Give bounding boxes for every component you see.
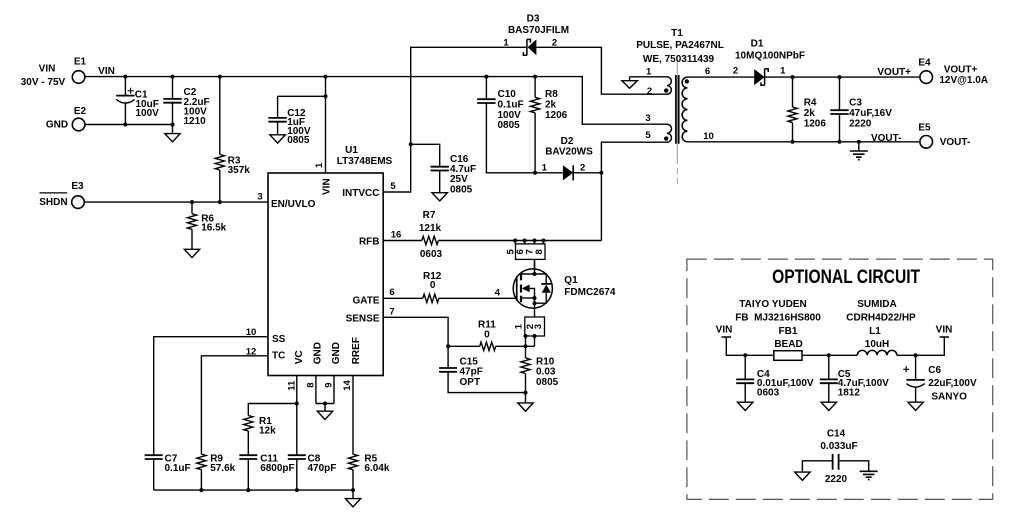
wire T1 pin 5 to Q1 drain rail xyxy=(601,142,667,240)
wire C12 leads xyxy=(277,96,279,135)
svg-text:TAIYO YUDEN: TAIYO YUDEN xyxy=(739,299,806,310)
svg-text:2: 2 xyxy=(647,86,652,97)
transformer T1 primary winding 3-5 xyxy=(667,124,672,142)
svg-text:VOUT+: VOUT+ xyxy=(877,67,911,78)
ground C16 xyxy=(432,193,447,201)
wire D3 cathode to T1 pin 2 xyxy=(536,47,667,94)
svg-text:C14: C14 xyxy=(827,428,846,439)
svg-text:RFB: RFB xyxy=(359,237,380,248)
wire output earth stem xyxy=(858,142,860,151)
wire C3 leads xyxy=(839,77,841,142)
IC U1 LT3748EMS body xyxy=(268,173,383,376)
svg-text:BAS70JFILM: BAS70JFILM xyxy=(508,25,569,36)
svg-text:2220: 2220 xyxy=(825,474,848,485)
wire SS to C7 xyxy=(154,337,268,490)
svg-text:0805: 0805 xyxy=(287,135,310,146)
svg-text:121k: 121k xyxy=(419,223,442,234)
svg-text:INTVCC: INTVCC xyxy=(342,188,379,199)
ground R6 xyxy=(184,249,199,257)
svg-text:C3: C3 xyxy=(849,98,862,109)
svg-text:VIN: VIN xyxy=(321,178,332,195)
svg-text:2: 2 xyxy=(733,66,738,77)
svg-text:1210: 1210 xyxy=(184,116,207,127)
svg-text:57.6k: 57.6k xyxy=(210,463,235,474)
svg-text:E2: E2 xyxy=(74,106,87,117)
svg-text:1206: 1206 xyxy=(804,119,827,130)
resistor R3 xyxy=(215,155,224,171)
svg-text:0: 0 xyxy=(430,280,436,291)
wire FB1 to L1 xyxy=(802,354,857,356)
wire VOUT- xyxy=(688,141,920,143)
capacitor C16 plates xyxy=(431,167,449,171)
svg-text:0805: 0805 xyxy=(498,120,521,131)
svg-text:EN/UVLO: EN/UVLO xyxy=(271,199,316,210)
svg-text:VOUT-: VOUT- xyxy=(871,133,902,144)
wire C2 leads xyxy=(172,77,174,134)
svg-text:357k: 357k xyxy=(228,165,251,176)
resistor R10 xyxy=(521,358,530,374)
svg-text:30V - 75V: 30V - 75V xyxy=(21,77,66,88)
svg-text:OPT: OPT xyxy=(460,377,481,388)
svg-text:2220: 2220 xyxy=(849,119,872,130)
svg-text:E5: E5 xyxy=(918,123,931,134)
wire C12 branch xyxy=(278,95,326,97)
earth ground C14 right xyxy=(860,471,878,479)
wire GND pins 8 9 xyxy=(316,376,334,412)
transistor Q1 FDMC2674 body xyxy=(513,269,552,308)
svg-text:0805: 0805 xyxy=(536,377,559,388)
svg-text:E1: E1 xyxy=(74,56,87,67)
svg-text:10: 10 xyxy=(246,327,257,338)
svg-text:VOUT+: VOUT+ xyxy=(944,65,978,76)
svg-text:WE, 750311439: WE, 750311439 xyxy=(643,54,715,65)
svg-text:U1: U1 xyxy=(345,145,358,156)
svg-text:GND: GND xyxy=(312,342,323,364)
wire GATE xyxy=(383,297,517,299)
wire VC node xyxy=(248,376,296,491)
svg-text:6: 6 xyxy=(705,66,710,77)
svg-text:470pF: 470pF xyxy=(308,463,337,474)
svg-text:2: 2 xyxy=(552,37,557,48)
transformer T1 center line xyxy=(676,59,678,158)
svg-text:10: 10 xyxy=(703,131,714,142)
svg-text:1812: 1812 xyxy=(838,387,861,398)
wire TC to R9 xyxy=(201,356,268,490)
ground U1 GND pins xyxy=(317,411,332,419)
transistor Q1 source pin box 1 2 3 xyxy=(525,317,545,336)
wire VIN rail to T1 pin 3 xyxy=(85,77,667,125)
svg-text:RREF: RREF xyxy=(351,337,362,364)
ground C4 xyxy=(738,402,753,410)
transformer T1 core xyxy=(676,75,679,144)
C6 polarity plus sign xyxy=(903,366,909,372)
transistor Q1 drain pin box xyxy=(516,244,546,260)
svg-text:LT3748EMS: LT3748EMS xyxy=(337,156,393,167)
earth ground VOUT- xyxy=(850,151,868,160)
svg-text:5: 5 xyxy=(390,181,396,192)
svg-text:OPTIONAL CIRCUIT: OPTIONAL CIRCUIT xyxy=(772,266,920,288)
resistor R1 xyxy=(244,416,253,432)
svg-text:Q1: Q1 xyxy=(564,275,578,286)
wire SHDN xyxy=(84,201,268,203)
capacitor C5 plates xyxy=(820,379,838,383)
wire optional VIN right stub xyxy=(897,337,949,355)
ground R5 xyxy=(345,499,360,507)
svg-text:12: 12 xyxy=(246,347,257,358)
resistor R11 xyxy=(480,342,496,350)
svg-text:1: 1 xyxy=(542,162,548,173)
svg-text:3: 3 xyxy=(533,324,544,329)
wire compensation ground rail xyxy=(154,490,353,499)
svg-text:1206: 1206 xyxy=(545,110,568,121)
capacitor C4 plates xyxy=(736,379,754,383)
terminal E1 xyxy=(72,71,85,84)
wire R6 leads xyxy=(191,202,193,249)
svg-text:10uH: 10uH xyxy=(865,339,889,350)
svg-text:BAV20WS: BAV20WS xyxy=(545,147,593,158)
capacitor C6 plates xyxy=(906,379,924,381)
wire U1 VIN pin 1 xyxy=(325,77,327,173)
svg-text:8: 8 xyxy=(305,383,316,388)
svg-text:SS: SS xyxy=(272,334,286,345)
svg-text:VIN: VIN xyxy=(936,324,953,335)
svg-text:3: 3 xyxy=(257,192,262,203)
capacitor C10 plates xyxy=(477,99,495,103)
svg-text:3: 3 xyxy=(645,113,650,124)
ground C5 xyxy=(821,402,836,410)
wire optional VIN left stub xyxy=(722,337,774,355)
svg-text:6.04k: 6.04k xyxy=(364,463,389,474)
resistor R6 xyxy=(187,214,196,230)
wire R11 node xyxy=(448,345,534,347)
svg-text:GND: GND xyxy=(331,342,342,364)
svg-text:VIN: VIN xyxy=(716,324,733,335)
svg-text:8: 8 xyxy=(534,249,545,254)
diode D1 10MQ100NPbF xyxy=(754,69,768,85)
svg-text:R7: R7 xyxy=(423,210,436,221)
capacitor C14 plates xyxy=(833,454,839,470)
svg-text:100V: 100V xyxy=(136,108,160,119)
svg-text:D1: D1 xyxy=(751,39,764,50)
resistor R4 xyxy=(788,107,797,123)
ground C12 xyxy=(270,135,285,143)
wire C5 leads xyxy=(828,355,830,402)
svg-text:7: 7 xyxy=(389,307,394,318)
ground C6 xyxy=(908,402,923,410)
terminal E5 xyxy=(920,136,933,149)
svg-text:PULSE, PA2467NL: PULSE, PA2467NL xyxy=(636,40,724,51)
SHDN overline xyxy=(40,192,68,194)
terminal E4 xyxy=(920,71,933,84)
svg-text:14: 14 xyxy=(342,380,353,391)
wire R10 leads xyxy=(525,346,527,403)
svg-text:0603: 0603 xyxy=(420,249,443,260)
svg-text:T1: T1 xyxy=(671,28,683,39)
wire C10 leads xyxy=(486,77,563,173)
svg-text:SUMIDA: SUMIDA xyxy=(857,299,896,310)
junction dots optional xyxy=(743,353,917,357)
svg-text:SHDN: SHDN xyxy=(39,197,67,208)
wire C15 top lead xyxy=(447,346,449,368)
resistor R9 xyxy=(197,454,206,470)
svg-text:1: 1 xyxy=(780,66,786,77)
svg-text:0.033uF: 0.033uF xyxy=(820,441,857,452)
wire GND input xyxy=(85,124,173,126)
wire RFB / drain rail xyxy=(383,240,601,242)
wire T1 pin 1 stub xyxy=(630,77,667,81)
svg-text:0805: 0805 xyxy=(450,184,473,195)
svg-text:FB MJ3216HS800: FB MJ3216HS800 xyxy=(735,312,821,323)
svg-text:SANYO: SANYO xyxy=(931,391,967,402)
capacitor C11 plates xyxy=(239,455,257,459)
transistor Q1 drain pin stubs 5 6 7 8 xyxy=(515,241,543,244)
svg-text:2: 2 xyxy=(580,162,585,173)
svg-text:FDMC2674: FDMC2674 xyxy=(564,287,616,298)
svg-text:C6: C6 xyxy=(928,365,941,376)
svg-text:BEAD: BEAD xyxy=(774,339,802,350)
diode D3 BAS70JFILM xyxy=(523,39,536,55)
svg-text:0603: 0603 xyxy=(757,387,780,398)
svg-text:L1: L1 xyxy=(869,326,881,337)
svg-text:GND: GND xyxy=(46,120,68,131)
transformer T1 secondary winding 6-10 xyxy=(682,77,687,142)
svg-text:0: 0 xyxy=(484,330,490,341)
svg-text:VIN: VIN xyxy=(39,64,56,75)
svg-text:1: 1 xyxy=(503,37,509,48)
svg-text:1: 1 xyxy=(646,66,652,77)
capacitor C1 plates xyxy=(116,95,134,97)
terminal E2 xyxy=(72,118,85,131)
wire C1 leads xyxy=(124,77,126,125)
wire T1 pin 6 to D1 xyxy=(688,76,755,78)
svg-text:D3: D3 xyxy=(527,14,540,25)
wire SENSE xyxy=(383,317,448,346)
svg-text:VC: VC xyxy=(294,350,305,364)
svg-text:VIN: VIN xyxy=(98,66,115,77)
svg-text:D2: D2 xyxy=(561,136,574,147)
svg-text:16.5k: 16.5k xyxy=(201,222,226,233)
svg-text:0.1uF: 0.1uF xyxy=(498,99,524,110)
svg-text:CDRH4D22/HP: CDRH4D22/HP xyxy=(846,312,916,323)
resistor R8 xyxy=(531,97,540,113)
wire C14 right to earth xyxy=(839,461,869,472)
ground C14 left arrow xyxy=(795,472,810,480)
svg-text:4: 4 xyxy=(495,287,501,298)
wire C6 leads xyxy=(915,355,917,402)
svg-text:GATE: GATE xyxy=(352,295,379,306)
capacitor C2 plates xyxy=(163,99,181,103)
svg-text:6800pF: 6800pF xyxy=(260,463,294,474)
svg-text:1: 1 xyxy=(314,162,325,168)
svg-text:10MQ100NPbF: 10MQ100NPbF xyxy=(735,51,805,62)
svg-text:R4: R4 xyxy=(804,98,817,109)
svg-text:9: 9 xyxy=(323,383,334,388)
capacitor C3 plates xyxy=(830,110,848,114)
svg-text:0.1uF: 0.1uF xyxy=(165,463,191,474)
svg-text:12V@1.0A: 12V@1.0A xyxy=(939,75,988,86)
svg-text:SENSE: SENSE xyxy=(346,314,380,325)
ground R10 xyxy=(518,403,533,411)
wire VOUT+ xyxy=(765,76,920,78)
capacitor C8 plates xyxy=(288,455,306,459)
resistor R12 xyxy=(423,294,439,302)
T1 pin 1 open arrow xyxy=(622,81,637,89)
svg-text:16: 16 xyxy=(391,229,402,240)
transistor Q1 drain lead xyxy=(534,259,536,274)
svg-text:12k: 12k xyxy=(259,425,276,436)
wire C16 branch xyxy=(411,144,440,192)
svg-text:E4: E4 xyxy=(918,58,931,69)
capacitor C15 plates xyxy=(439,368,457,372)
inductor L1 xyxy=(857,350,897,355)
wire R3 leads xyxy=(219,77,221,203)
capacitor C12 plates xyxy=(268,118,286,122)
wire RREF to R5 xyxy=(352,376,354,491)
wire C14 left to ground arrow xyxy=(802,461,832,472)
wire R4 leads xyxy=(792,77,794,142)
svg-text:11: 11 xyxy=(286,380,297,391)
resistor R7 xyxy=(422,236,439,244)
diode D2 BAV20WS xyxy=(563,165,573,180)
capacitor C7 plates xyxy=(145,455,163,459)
ferrite bead FB1 xyxy=(774,351,802,361)
wire R8 leads xyxy=(534,77,536,173)
svg-text:1: 1 xyxy=(514,323,525,329)
wire C15 bottom xyxy=(448,372,525,393)
C1 polarity plus sign xyxy=(128,88,134,94)
svg-text:FB1: FB1 xyxy=(779,326,798,337)
wire C4 leads xyxy=(744,355,746,402)
transformer T1 phase dots xyxy=(664,88,668,92)
resistor R5 xyxy=(348,454,357,470)
svg-text:22uF,100V: 22uF,100V xyxy=(928,378,977,389)
svg-text:2k: 2k xyxy=(545,99,557,110)
wire INTVCC to D3 anode loop xyxy=(383,47,527,192)
ground C2 xyxy=(165,134,180,142)
svg-text:5: 5 xyxy=(645,130,651,141)
svg-text:E3: E3 xyxy=(71,181,84,192)
svg-text:TC: TC xyxy=(272,350,285,361)
transformer T1 primary winding 1-2 xyxy=(667,77,671,94)
svg-text:VOUT-: VOUT- xyxy=(940,137,971,148)
optional circuit dashed border xyxy=(687,259,993,499)
wire D2 cathode xyxy=(573,172,601,174)
terminal E3 xyxy=(72,196,85,209)
svg-text:6: 6 xyxy=(389,287,394,298)
